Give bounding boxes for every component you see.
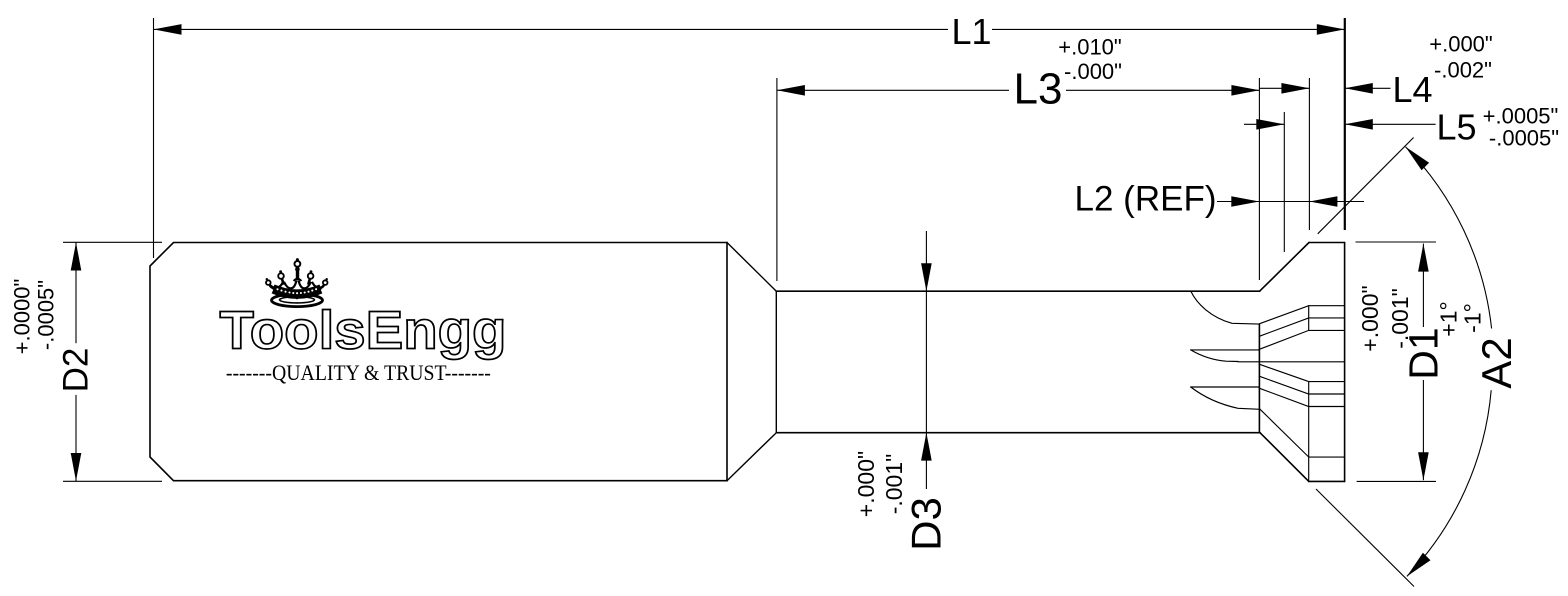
svg-text:-.001": -.001"	[1387, 288, 1413, 349]
angle A2 leader bottom	[1316, 489, 1414, 587]
arrow L2 right	[1309, 196, 1337, 207]
svg-text:-.001": -.001"	[881, 454, 907, 515]
head top edge	[1309, 242, 1345, 244]
svg-text:-------QUALITY & TRUST-------: -------QUALITY & TRUST-------	[226, 360, 491, 385]
angle A2 leader top	[1318, 138, 1414, 234]
svg-text:-.0005": -.0005"	[34, 280, 59, 350]
arrow L4 left	[1281, 83, 1309, 94]
arrow D2 bottom	[71, 453, 82, 481]
tooth 1 face line a	[1259, 306, 1344, 324]
svg-text:+.000": +.000"	[853, 451, 879, 517]
svg-text:-.002": -.002"	[1434, 58, 1492, 83]
angle A2 arc lower	[1407, 390, 1491, 576]
dimension L1	[154, 18, 1345, 258]
tooth 3 beak top edge	[1191, 386, 1260, 388]
head right face	[1344, 243, 1346, 482]
arrow L1 left	[154, 24, 182, 35]
head left vertical edge	[1258, 324, 1260, 433]
tooth 3 beak lower curve	[1191, 387, 1260, 409]
svg-text:-.000": -.000"	[1064, 59, 1122, 84]
svg-text:L5: L5	[1436, 107, 1476, 148]
shank outline	[150, 243, 727, 481]
arrow L3 left	[777, 85, 805, 96]
neck bottom line	[776, 432, 1260, 434]
arrow L1 right	[1317, 24, 1345, 35]
tooth 2 face line b	[1259, 376, 1344, 394]
neck top line	[776, 290, 1259, 292]
svg-text:D2: D2	[57, 348, 96, 393]
arrow L3 right	[1231, 85, 1259, 96]
logo crown	[266, 261, 328, 307]
neck front face	[775, 291, 777, 433]
dimension D1	[1356, 242, 1437, 481]
svg-text:+.010": +.010"	[1058, 35, 1121, 60]
arrow D3 top	[921, 263, 932, 291]
dimension L2 (REF)	[1217, 201, 1364, 203]
flute gash arc	[1191, 291, 1260, 324]
dimension L4	[1259, 78, 1390, 230]
arrow A2 bottom	[1407, 553, 1431, 577]
arrow L5 right	[1345, 119, 1373, 130]
arrow L2 left	[1231, 196, 1259, 207]
svg-text:-.0005": -.0005"	[1489, 126, 1559, 151]
svg-text:+.0000": +.0000"	[10, 279, 35, 355]
gullet line	[1238, 361, 1345, 363]
dimension D3	[925, 231, 927, 489]
arrow D1 bottom	[1418, 452, 1429, 480]
arrow A2 top	[1406, 147, 1430, 171]
tooth 2 beak lower curve	[1191, 350, 1238, 362]
arrow D2 top	[71, 243, 82, 271]
head chamfer edge	[1260, 243, 1309, 292]
tooth 2 face line a	[1259, 364, 1344, 381]
arrow D3 bottom	[921, 433, 932, 461]
head dovetail side	[1260, 433, 1309, 482]
taper bottom line	[727, 433, 776, 481]
svg-text:D3: D3	[903, 497, 950, 551]
tooth 2 land edge vertical	[1308, 382, 1310, 482]
tooth 2 beak top edge	[1191, 349, 1260, 351]
svg-text:+.000": +.000"	[1429, 32, 1492, 57]
arrow L4 right	[1345, 83, 1373, 94]
svg-text:ToolsEngg: ToolsEngg	[220, 301, 507, 361]
taper top line	[727, 243, 776, 292]
angle A2 arc upper	[1406, 147, 1492, 329]
svg-text:-1°: -1°	[1459, 303, 1485, 333]
svg-text:+.000": +.000"	[1357, 285, 1383, 351]
tooth 1 land edge vertical	[1308, 306, 1310, 331]
tooth 1 face line b	[1259, 318, 1344, 336]
svg-text:A2: A2	[1473, 337, 1520, 388]
svg-text:L3: L3	[1014, 65, 1063, 114]
arrow D1 top	[1418, 244, 1429, 272]
arrow L5 left	[1256, 119, 1284, 130]
svg-text:+1°: +1°	[1436, 301, 1462, 336]
tooth 3 relief line	[1260, 409, 1345, 457]
head bottom edge	[1309, 480, 1345, 482]
dimension L3	[777, 78, 1260, 281]
tooth 1 face line c	[1259, 330, 1344, 349]
svg-text:L4: L4	[1392, 69, 1432, 110]
tooth 2 face line c	[1259, 388, 1344, 406]
dimension D2	[63, 242, 162, 481]
svg-text:L2 (REF): L2 (REF)	[1075, 180, 1217, 219]
dimension L5	[1244, 112, 1436, 252]
svg-text:L1: L1	[951, 11, 991, 52]
